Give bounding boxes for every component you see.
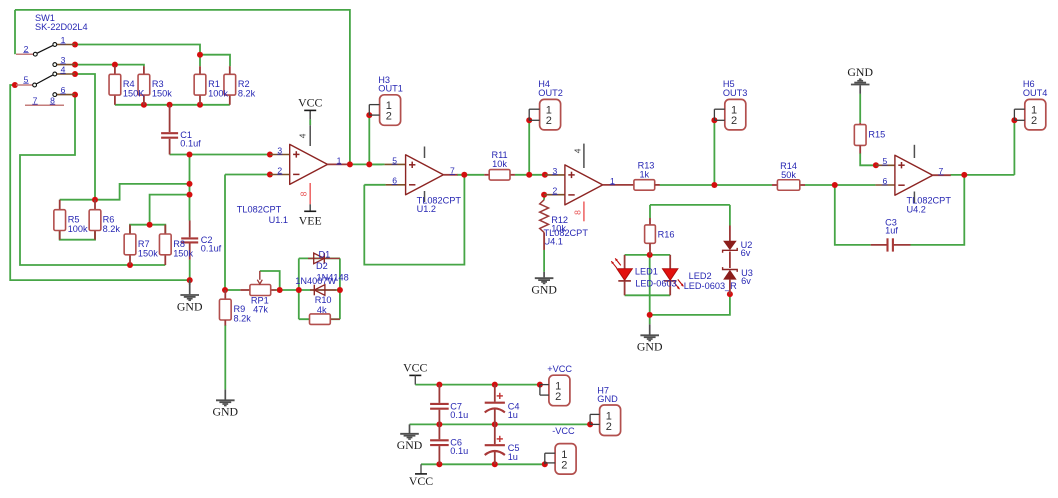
- svg-text:2: 2: [606, 421, 612, 433]
- svg-text:1u: 1u: [508, 452, 518, 462]
- svg-text:6: 6: [392, 176, 397, 186]
- svg-text:R15: R15: [868, 129, 885, 139]
- svg-text:R3: R3: [152, 79, 164, 89]
- svg-text:2: 2: [731, 115, 737, 127]
- svg-text:5: 5: [883, 156, 888, 166]
- svg-text:10k: 10k: [551, 224, 566, 234]
- svg-text:TL082CPT: TL082CPT: [237, 205, 282, 215]
- svg-text:4k: 4k: [317, 305, 327, 315]
- svg-text:6v: 6v: [741, 248, 751, 258]
- svg-text:R1: R1: [208, 79, 220, 89]
- svg-text:10k: 10k: [492, 159, 507, 169]
- svg-text:GND: GND: [847, 65, 873, 79]
- svg-text:100k: 100k: [208, 89, 228, 99]
- svg-text:1k: 1k: [639, 169, 649, 179]
- svg-text:5: 5: [24, 74, 29, 84]
- svg-text:2: 2: [277, 165, 282, 175]
- svg-text:D2: D2: [316, 261, 328, 271]
- svg-text:2: 2: [1031, 115, 1037, 127]
- svg-text:6v: 6v: [741, 276, 751, 286]
- svg-text:-VCC: -VCC: [552, 426, 575, 436]
- svg-text:GND: GND: [397, 438, 423, 452]
- svg-text:R9: R9: [234, 304, 246, 314]
- svg-text:7: 7: [450, 166, 455, 176]
- svg-text:7: 7: [33, 95, 38, 105]
- svg-text:OUT3: OUT3: [723, 88, 748, 98]
- svg-text:6: 6: [61, 85, 66, 95]
- svg-text:R7: R7: [138, 239, 150, 249]
- svg-text:3: 3: [61, 55, 66, 65]
- svg-text:OUT1: OUT1: [378, 84, 403, 94]
- svg-text:LED2: LED2: [689, 271, 712, 281]
- svg-text:VEE: VEE: [299, 213, 322, 227]
- svg-text:VCC: VCC: [298, 96, 322, 110]
- svg-text:LED-0603: LED-0603: [635, 279, 676, 289]
- svg-text:OUT2: OUT2: [538, 88, 563, 98]
- svg-text:SK-22D02L4: SK-22D02L4: [35, 22, 88, 32]
- svg-text:150K: 150K: [123, 89, 145, 99]
- svg-text:1N4148: 1N4148: [317, 273, 349, 283]
- svg-text:R16: R16: [658, 230, 675, 240]
- svg-text:150k: 150k: [173, 248, 193, 258]
- svg-text:50k: 50k: [781, 170, 796, 180]
- svg-text:R6: R6: [103, 215, 115, 225]
- svg-text:8.2k: 8.2k: [238, 89, 256, 99]
- svg-text:150k: 150k: [152, 89, 172, 99]
- svg-text:OUT4: OUT4: [1023, 88, 1048, 98]
- svg-text:1: 1: [61, 35, 66, 45]
- svg-text:GND: GND: [637, 340, 663, 354]
- svg-text:U1.2: U1.2: [417, 204, 436, 214]
- svg-text:U4.1: U4.1: [544, 237, 563, 247]
- svg-text:0.1u: 0.1u: [450, 410, 468, 420]
- svg-text:2: 2: [386, 111, 392, 123]
- svg-text:4: 4: [572, 148, 582, 153]
- svg-text:GND: GND: [177, 299, 203, 313]
- svg-text:GND: GND: [531, 283, 557, 297]
- svg-text:3: 3: [277, 145, 282, 155]
- svg-text:2: 2: [24, 44, 29, 54]
- svg-text:D1: D1: [319, 250, 331, 260]
- svg-text:2: 2: [553, 186, 558, 196]
- svg-text:R2: R2: [238, 79, 250, 89]
- svg-text:4: 4: [298, 133, 308, 138]
- svg-text:0.1uf: 0.1uf: [180, 138, 201, 148]
- svg-text:6: 6: [883, 176, 888, 186]
- svg-text:8: 8: [572, 210, 582, 215]
- svg-text:4: 4: [61, 64, 66, 74]
- svg-text:100k: 100k: [68, 224, 88, 234]
- svg-text:2: 2: [561, 459, 567, 471]
- svg-text:R10: R10: [315, 295, 332, 305]
- svg-text:1: 1: [610, 176, 615, 186]
- svg-text:U4.2: U4.2: [907, 205, 926, 215]
- svg-text:GND: GND: [597, 394, 618, 404]
- svg-text:VCC: VCC: [403, 361, 427, 375]
- svg-text:150k: 150k: [138, 248, 158, 258]
- svg-text:5: 5: [392, 155, 397, 165]
- svg-text:LED1: LED1: [635, 267, 658, 277]
- svg-text:VCC: VCC: [409, 474, 433, 488]
- svg-text:1u: 1u: [508, 410, 518, 420]
- svg-text:8.2k: 8.2k: [234, 313, 252, 323]
- svg-text:U1.1: U1.1: [269, 215, 288, 225]
- svg-text:R8: R8: [173, 239, 185, 249]
- svg-text:3: 3: [553, 166, 558, 176]
- svg-text:7: 7: [939, 166, 944, 176]
- svg-text:0.1u: 0.1u: [450, 446, 468, 456]
- svg-text:1uf: 1uf: [885, 225, 898, 235]
- svg-text:47k: 47k: [253, 305, 268, 315]
- svg-text:R4: R4: [123, 79, 135, 89]
- svg-text:8.2k: 8.2k: [103, 224, 121, 234]
- svg-text:R5: R5: [68, 215, 80, 225]
- svg-text:GND: GND: [213, 405, 239, 419]
- svg-text:+VCC: +VCC: [547, 364, 572, 374]
- svg-text:8: 8: [50, 95, 55, 105]
- svg-text:1: 1: [337, 155, 342, 165]
- svg-text:8: 8: [298, 191, 308, 196]
- svg-text:2: 2: [555, 391, 561, 403]
- svg-text:2: 2: [546, 115, 552, 127]
- svg-text:0.1uf: 0.1uf: [201, 244, 222, 254]
